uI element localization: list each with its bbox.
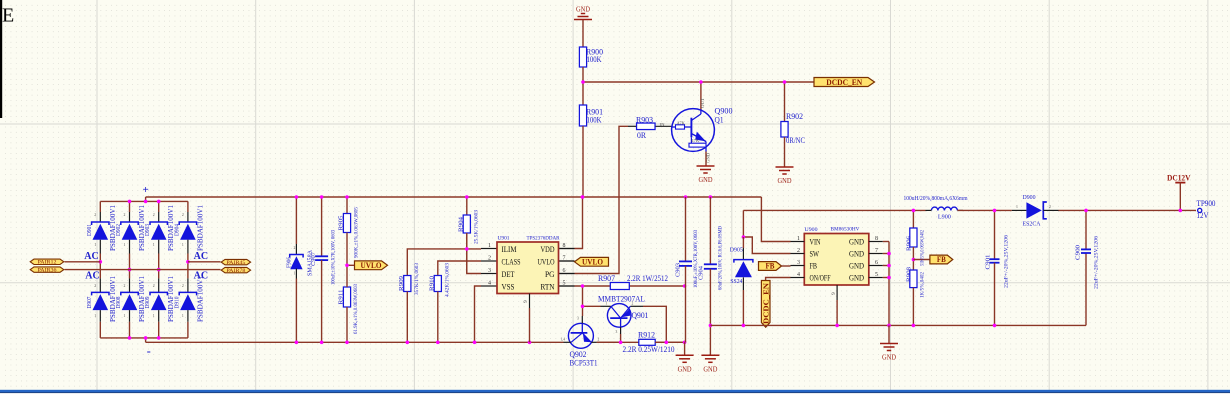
svg-text:GND: GND — [703, 364, 718, 373]
svg-text:ILIM: ILIM — [502, 245, 518, 254]
svg-text:22uF+/-20%,25V,1206: 22uF+/-20%,25V,1206 — [1093, 236, 1099, 289]
svg-text:100K: 100K — [587, 55, 602, 64]
svg-text:1: 1 — [182, 243, 184, 247]
svg-text:R903: R903 — [636, 115, 653, 124]
svg-text:U901: U901 — [498, 235, 510, 241]
svg-text:1: 1 — [606, 302, 608, 306]
svg-text:1: 1 — [124, 243, 126, 247]
svg-text:9: 9 — [831, 292, 837, 295]
svg-text:47K: 47K — [677, 121, 686, 125]
svg-text:5: 5 — [875, 272, 878, 278]
svg-text:D901: D901 — [86, 224, 93, 236]
svg-text:2.2R 1W/2512: 2.2R 1W/2512 — [627, 274, 668, 283]
svg-text:UVLO: UVLO — [582, 258, 603, 267]
svg-text:3: 3 — [577, 317, 579, 321]
svg-text:2: 2 — [94, 213, 96, 217]
svg-text:D902: D902 — [115, 224, 122, 236]
svg-text:ON/OFF: ON/OFF — [810, 274, 831, 283]
svg-text:C903: C903 — [676, 263, 682, 277]
svg-text:UVLO: UVLO — [538, 257, 555, 266]
svg-text:Q900: Q900 — [715, 107, 733, 116]
svg-text:2: 2 — [598, 338, 600, 342]
svg-text:GND: GND — [707, 152, 711, 163]
svg-text:L900: L900 — [938, 215, 951, 221]
svg-text:GND: GND — [849, 262, 864, 271]
svg-text:51K/5%,0.063W,0402: 51K/5%,0.063W,0402 — [920, 230, 926, 266]
svg-text:C907: C907 — [311, 252, 317, 266]
svg-text:TP900: TP900 — [1197, 199, 1216, 208]
svg-text:2: 2 — [182, 213, 184, 217]
svg-text:FB: FB — [937, 255, 947, 264]
svg-text:2: 2 — [488, 256, 491, 262]
svg-text:22uF+/-20%,25V,1206: 22uF+/-20%,25V,1206 — [1004, 235, 1010, 288]
svg-text:PAIR36: PAIR36 — [38, 268, 58, 273]
svg-text:C900: C900 — [1075, 245, 1081, 260]
svg-text:IN: IN — [660, 123, 666, 127]
svg-text:R907: R907 — [598, 274, 615, 283]
svg-text:DET: DET — [502, 270, 515, 279]
svg-text:8: 8 — [563, 243, 566, 249]
svg-text:6: 6 — [563, 268, 566, 274]
svg-text:2: 2 — [124, 213, 126, 217]
svg-text:1: 1 — [153, 314, 155, 318]
svg-text:BCP53T1: BCP53T1 — [570, 359, 598, 368]
svg-text:1: 1 — [182, 314, 184, 318]
svg-text:GND: GND — [778, 176, 793, 185]
svg-text:GND: GND — [678, 364, 693, 373]
svg-text:OUT: OUT — [701, 97, 705, 108]
svg-text:FB: FB — [766, 262, 776, 271]
svg-text:R910: R910 — [430, 276, 436, 291]
svg-text:CLASS: CLASS — [502, 257, 521, 266]
svg-text:R904: R904 — [458, 217, 464, 232]
svg-text:5: 5 — [563, 281, 566, 287]
svg-text:2: 2 — [294, 246, 296, 250]
svg-text:UVLO: UVLO — [361, 261, 382, 270]
svg-text:PAIR12: PAIR12 — [38, 261, 58, 266]
svg-text:FB: FB — [810, 262, 818, 271]
svg-text:4: 4 — [797, 272, 800, 278]
svg-text:68uF/20%,100V, RC6.6,P6.0SMD: 68uF/20%,100V, RC6.6,P6.0SMD — [718, 226, 724, 290]
svg-text:PAIR78: PAIR78 — [226, 269, 246, 274]
svg-text:ES2CA: ES2CA — [1023, 221, 1041, 228]
svg-text:GND: GND — [699, 175, 714, 184]
svg-text:1: 1 — [797, 236, 800, 242]
svg-text:2: 2 — [1049, 205, 1051, 209]
svg-text:2: 2 — [124, 284, 126, 288]
svg-text:D903: D903 — [144, 224, 151, 236]
svg-text:4: 4 — [488, 281, 491, 287]
svg-text:RTN: RTN — [541, 282, 555, 291]
svg-text:2: 2 — [797, 248, 800, 254]
svg-text:1: 1 — [294, 272, 296, 276]
svg-text:Q901: Q901 — [632, 311, 649, 320]
svg-text:+: + — [142, 184, 148, 196]
svg-text:GND: GND — [882, 353, 897, 362]
svg-text:C904: C904 — [699, 266, 705, 280]
svg-text:R909: R909 — [399, 276, 405, 291]
svg-text:900K,±1%,0.063W,0805: 900K,±1%,0.063W,0805 — [354, 207, 360, 258]
svg-text:Q1: Q1 — [715, 116, 724, 125]
svg-text:1: 1 — [124, 314, 126, 318]
svg-text:DCDC_EN: DCDC_EN — [826, 77, 863, 87]
svg-text:2.2R 0.25W/1210: 2.2R 0.25W/1210 — [623, 345, 675, 354]
svg-text:AC: AC — [85, 270, 100, 281]
svg-text:1: 1 — [488, 243, 491, 249]
svg-text:1: 1 — [94, 243, 96, 247]
svg-text:PG: PG — [545, 270, 555, 279]
svg-text:AC: AC — [194, 251, 209, 262]
svg-text:2: 2 — [153, 213, 155, 217]
svg-text:VDD: VDD — [541, 245, 555, 254]
svg-text:D905: D905 — [730, 246, 743, 253]
svg-text:GND: GND — [849, 250, 864, 259]
svg-text:PSBDAF100V1: PSBDAF100V1 — [195, 276, 204, 322]
svg-text:3: 3 — [616, 330, 618, 334]
svg-text:PSBDAF100V1: PSBDAF100V1 — [195, 205, 204, 251]
svg-text:61.9K,±1%,0.063W,0603: 61.9K,±1%,0.063W,0603 — [353, 284, 359, 334]
svg-text:DC12V: DC12V — [1167, 173, 1191, 182]
svg-text:D908: D908 — [115, 297, 122, 309]
svg-text:3: 3 — [488, 268, 491, 274]
svg-text:12V: 12V — [1197, 211, 1209, 220]
svg-text:2: 2 — [94, 284, 96, 288]
svg-text:AC: AC — [194, 270, 209, 281]
svg-text:100K: 100K — [587, 116, 602, 125]
svg-text:R911: R911 — [339, 290, 345, 305]
svg-text:0R/NC: 0R/NC — [786, 136, 805, 145]
svg-text:100uF,±10%,X7R,100V, 0603: 100uF,±10%,X7R,100V, 0603 — [331, 230, 337, 285]
svg-text:E: E — [2, 5, 14, 27]
svg-text:0R: 0R — [637, 131, 647, 140]
svg-text:R906: R906 — [907, 236, 913, 251]
svg-text:1: 1 — [1016, 205, 1018, 209]
svg-text:VIN: VIN — [810, 238, 821, 247]
svg-text:9: 9 — [523, 300, 529, 303]
svg-text:D909: D909 — [144, 297, 151, 309]
svg-text:R905: R905 — [339, 216, 345, 231]
svg-text:SW: SW — [810, 250, 820, 259]
svg-text:8: 8 — [875, 236, 878, 242]
svg-text:6: 6 — [875, 260, 878, 266]
svg-text:2: 2 — [182, 284, 184, 288]
svg-text:D907: D907 — [86, 296, 93, 309]
svg-text:4.42K/1%,0603: 4.42K/1%,0603 — [445, 263, 451, 297]
svg-text:1: 1 — [94, 314, 96, 318]
svg-text:R912: R912 — [638, 330, 655, 339]
svg-text:2: 2 — [632, 302, 634, 306]
svg-text:SS24: SS24 — [730, 278, 743, 285]
svg-text:357K/1%,0603: 357K/1%,0603 — [414, 263, 420, 295]
svg-text:GND: GND — [849, 238, 864, 247]
svg-text:R902: R902 — [786, 112, 803, 121]
svg-text:TPS2376DDAR: TPS2376DDAR — [527, 235, 560, 241]
svg-text:BM86530HV: BM86530HV — [831, 226, 860, 232]
svg-text:GND: GND — [576, 5, 591, 14]
svg-text:3: 3 — [797, 260, 800, 266]
svg-text:25.5K/1%,0603: 25.5K/1%,0603 — [474, 210, 480, 244]
svg-text:GND: GND — [849, 274, 864, 283]
svg-text:R908: R908 — [907, 267, 913, 282]
svg-text:1K/5%,0402: 1K/5%,0402 — [920, 272, 926, 298]
svg-text:-: - — [147, 344, 151, 358]
svg-text:VSS: VSS — [502, 282, 515, 291]
svg-text:U900: U900 — [805, 227, 818, 233]
svg-text:AC: AC — [84, 251, 99, 262]
svg-text:PAIR45: PAIR45 — [226, 261, 246, 266]
svg-text:2: 2 — [153, 284, 155, 288]
svg-text:D904: D904 — [173, 223, 180, 236]
svg-text:D910: D910 — [173, 297, 180, 309]
svg-text:47K: 47K — [691, 139, 700, 143]
svg-text:7: 7 — [875, 248, 878, 254]
svg-text:D900: D900 — [1023, 194, 1036, 201]
svg-text:DCDC_EN: DCDC_EN — [762, 282, 771, 324]
svg-text:100uH/20%,800mA,6X6mm: 100uH/20%,800mA,6X6mm — [904, 196, 968, 202]
svg-text:F906: F906 — [287, 257, 293, 268]
svg-text:7: 7 — [563, 256, 566, 262]
svg-text:C901: C901 — [985, 255, 991, 270]
svg-text:1: 1 — [153, 243, 155, 247]
